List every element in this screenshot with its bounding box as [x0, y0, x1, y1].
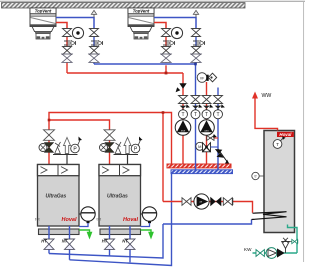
air vent arrow at TV1 return: [91, 10, 96, 17]
wire blue HT return boiler2: [109, 226, 111, 256]
wire blue heating circuit 2 return: [217, 88, 219, 171]
wire blue NT collector: [70, 174, 172, 266]
bypass with valve circuit2: [207, 134, 219, 140]
pump/valve with thermometer on boiler1 riser: [39, 143, 54, 153]
junction TV2 supply tee: [165, 72, 168, 75]
valve HT boiler1: [44, 239, 54, 249]
shut-off valve charge line left: [182, 198, 191, 206]
ceiling hatched slab: [2, 3, 246, 8]
wire red TV2 drop to header: [165, 65, 167, 73]
wire red heating circuit 2 supply: [206, 82, 208, 164]
wire blue air-heater return header: [94, 63, 196, 65]
sensor heads circuit 2: [197, 73, 217, 83]
junction charge tee: [162, 111, 165, 114]
wire blue heating circuit 1 return: [195, 64, 197, 170]
shut-off valve charge line right: [223, 198, 233, 206]
pump/valve with thermometer on boiler2 riser: [100, 143, 115, 153]
valve group + pump P-TV2 (red supply column): [161, 27, 183, 62]
svg-text:TopVent: TopVent: [35, 9, 52, 14]
wire blue HT collector: [49, 224, 163, 258]
shut-off valve KW: [256, 250, 264, 257]
shut-off valve on boiler1 flow riser: [44, 130, 55, 165]
svg-text:Hoval: Hoval: [279, 132, 292, 137]
valves thermometer circuit2 return: [214, 96, 225, 119]
right frame line: [303, 1, 305, 262]
thermometer in tank: [273, 136, 286, 148]
tank sensor: [252, 172, 264, 179]
boiler B1 Hoval UltraGas: [35, 165, 79, 235]
svg-text:NT: NT: [62, 239, 68, 244]
ceiling top line: [0, 0, 305, 2]
wire red tank charge line: [163, 202, 253, 213]
air vent arrow at TV2 return: [193, 10, 198, 17]
wire red boiler flow header: [49, 113, 172, 165]
expansion vessel at boiler2: [141, 207, 157, 227]
wire blue NT return boiler2: [129, 226, 131, 262]
charge pump: [194, 194, 209, 209]
valve NT boiler1: [65, 239, 75, 249]
wire red supply TV1: [56, 23, 67, 29]
mixing valve M circuit2: [196, 142, 218, 152]
Hoval label on tank: [277, 132, 294, 137]
valves thermometer pump circuit1 supply: [175, 96, 191, 136]
wire blue return main TV1: [56, 18, 94, 29]
calorifier tank body: [264, 131, 295, 233]
balancing valve circuit1: [176, 83, 187, 92]
wire red boiler2 flow link: [49, 120, 110, 130]
wire blue circuit1 return through distributor: [195, 163, 197, 170]
WW arrow: [252, 92, 258, 99]
wire blue HT return boiler1: [48, 226, 50, 254]
air heater TV2 (TopVent): [128, 8, 154, 39]
return collector bar: [171, 170, 233, 174]
valve group TV1 return column: [89, 29, 103, 65]
valve group + pump P-TV1 (red supply column): [62, 27, 84, 73]
tank heating coil: [252, 212, 287, 220]
svg-text:VF: VF: [200, 76, 204, 80]
drain arrow boiler1: [79, 230, 92, 240]
check valve KW: [266, 248, 285, 259]
svg-text:TopVent: TopVent: [133, 9, 150, 14]
wire blue circuit2 return through distributor: [217, 163, 219, 170]
junction boiler1 flow tee: [48, 119, 51, 122]
wire blue tank return line: [163, 220, 252, 225]
svg-text:NT: NT: [122, 239, 128, 244]
flow distributor bar: [167, 164, 231, 168]
valves thermometer circuit1 return: [191, 96, 202, 119]
svg-text:T: T: [276, 142, 279, 147]
svg-text:HT: HT: [41, 239, 47, 244]
safety valve KW: [282, 238, 298, 253]
safety valve group boiler2: [114, 137, 143, 165]
angle seat valve circuit2 return: [215, 149, 231, 166]
svg-text:HT: HT: [102, 239, 108, 244]
wire green KW supply: [253, 252, 298, 254]
air heater TV1 (TopVent): [30, 8, 56, 39]
valve NT boiler2: [125, 239, 135, 249]
wire red air-heater supply header: [67, 72, 183, 74]
wire red WW outlet: [255, 98, 278, 131]
svg-text:M: M: [198, 144, 201, 149]
check valve charge line: [210, 197, 221, 206]
boiler B2 Hoval UltraGas: [97, 165, 141, 235]
valves thermometer pump circuit2 supply: [199, 96, 215, 136]
svg-text:UltraGas: UltraGas: [107, 194, 128, 200]
wire green cold water to coil: [288, 225, 298, 254]
shut-off valve on boiler2 flow riser: [104, 130, 115, 165]
svg-text:tf: tf: [255, 175, 257, 179]
wire red supply TV2: [154, 23, 166, 29]
svg-text:UltraGas: UltraGas: [46, 194, 67, 200]
junction circuit1 return: [194, 63, 197, 66]
wire blue NT return boiler1: [69, 226, 71, 260]
svg-text:Hoval: Hoval: [123, 217, 138, 223]
wire red charge line drop: [162, 113, 164, 202]
wire red heating circuit 1 supply: [182, 73, 184, 164]
svg-text:KW: KW: [244, 247, 252, 252]
svg-text:Hoval: Hoval: [62, 217, 77, 223]
expansion vessel at boiler1: [79, 207, 95, 227]
wire blue return main TV2: [154, 18, 196, 29]
svg-text:WW: WW: [262, 93, 272, 99]
valve group TV2 return column (continues as circuit 1 return): [191, 29, 205, 65]
drain arrow boiler2: [141, 230, 154, 240]
valve HT boiler2: [105, 239, 115, 249]
safety valve group boiler1: [53, 137, 82, 165]
